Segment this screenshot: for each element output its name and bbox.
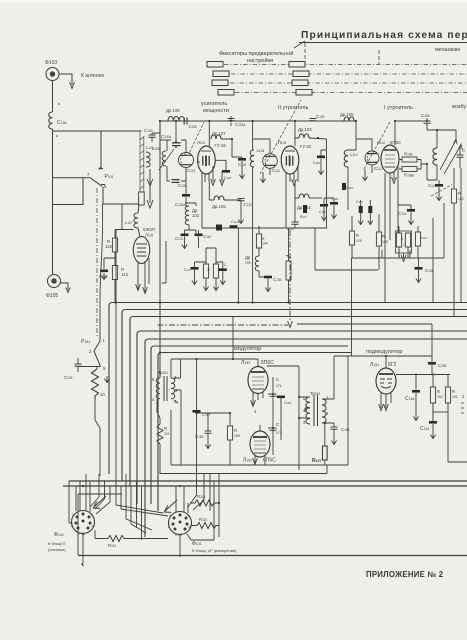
capacitor C109	[330, 202, 338, 205]
capacitor C149	[219, 268, 227, 271]
svg-text:C120a: C120a	[161, 134, 171, 139]
tube pins down + grounds	[202, 166, 222, 228]
interstage coil L109	[355, 121, 357, 150]
tube Л152 6П6С	[250, 431, 270, 457]
tube pins down + grounds	[286, 166, 298, 228]
mid vertical	[298, 366, 300, 470]
svg-text:ГУ-32: ГУ-32	[215, 143, 227, 148]
svg-text:6П6С: 6П6С	[390, 140, 401, 145]
svg-text:L107: L107	[125, 220, 133, 225]
svg-text:R108: R108	[404, 152, 413, 157]
right frame of modulator	[334, 356, 352, 465]
svg-text:C106: C106	[421, 113, 430, 118]
capacitor C134	[215, 160, 226, 170]
variable capacitor C121 (circle)	[179, 153, 194, 168]
svg-text:C119a: C119a	[235, 122, 245, 127]
svg-text:C135: C135	[273, 277, 282, 282]
svg-text:2: 2	[71, 524, 73, 528]
preset slider row3	[212, 80, 228, 86]
wire x166 hook	[162, 241, 167, 283]
svg-text:Др.103: Др.103	[298, 127, 312, 132]
svg-text:C121: C121	[428, 183, 437, 188]
antenna tank twin-line with coupling	[140, 131, 145, 192]
coil L107	[134, 205, 140, 238]
small bold caps right of Л103	[342, 183, 346, 190]
mechanism link line right	[378, 50, 380, 64]
svg-text:C131: C131	[398, 211, 407, 216]
svg-text:К блоку Б: К блоку Б	[48, 541, 66, 546]
svg-text:125: 125	[356, 239, 362, 243]
bus wire 1	[109, 303, 467, 475]
node arrow к антенне	[59, 74, 72, 85]
capacitor C no.1	[317, 156, 325, 159]
svg-text:7: 7	[91, 513, 93, 517]
svg-text:C116: C116	[346, 186, 353, 190]
bus wire 7	[158, 353, 352, 512]
resistor R117 bold	[303, 205, 307, 213]
choke Др105	[255, 256, 259, 271]
svg-text:C134: C134	[224, 176, 232, 180]
wire antenna down	[52, 81, 54, 113]
wire P101 to P151	[100, 204, 103, 336]
trimmer arrows (возбудитель)	[440, 140, 461, 174]
connector Ф103	[46, 68, 59, 81]
resistor R125	[376, 232, 381, 246]
resistor R158 zigzag	[92, 369, 99, 399]
choke Др104	[295, 182, 299, 198]
long vertical x160 down to modulator transformer	[159, 121, 161, 378]
svg-text:C117: C117	[356, 200, 363, 204]
capacitor C113a	[230, 225, 238, 228]
coil L104 variable	[162, 151, 166, 166]
svg-text:C121: C121	[187, 168, 196, 173]
resistor R113 zigzag	[95, 536, 168, 542]
svg-text:C: C	[462, 148, 465, 153]
svg-text:6Г2: 6Г2	[388, 362, 396, 368]
svg-text:C108: C108	[425, 268, 434, 273]
svg-text:7: 7	[188, 514, 190, 518]
resistor R114 zigzag	[190, 500, 219, 506]
bottom rail of PA cell	[202, 227, 327, 229]
top rail	[160, 120, 356, 122]
coil L105 (coupling, movable)	[146, 152, 150, 167]
resistor R102	[213, 264, 218, 278]
resistor R167	[323, 446, 328, 460]
bus wire 6	[151, 346, 348, 504]
svg-text:Тр151: Тр151	[158, 370, 168, 375]
capacitor C158	[331, 427, 338, 429]
svg-text:L104: L104	[146, 145, 154, 150]
resistor R119 zigzag	[157, 424, 163, 444]
wire stub x83	[53, 178, 84, 205]
svg-text:105: 105	[245, 261, 251, 265]
svg-text:(питанье): (питанье)	[48, 547, 66, 552]
svg-text:6П6С: 6П6С	[261, 360, 274, 366]
capacitor C106	[426, 118, 428, 130]
svg-text:Л104: Л104	[197, 140, 205, 145]
preset slider row1	[207, 62, 223, 68]
svg-text:C111: C111	[374, 166, 382, 171]
svg-text:102: 102	[192, 213, 200, 218]
capacitor C110	[320, 204, 328, 207]
capacitor C114	[294, 198, 296, 222]
svg-text:C130: C130	[189, 124, 198, 129]
transformer wires	[299, 356, 334, 427]
svg-text:Принципиальная схема пер: Принципиальная схема пер	[301, 30, 467, 41]
mechanism dash-dot rows with preset slider rectangles	[224, 65, 467, 93]
lower RC group of PA cathode	[185, 203, 196, 206]
coil C146 (antenna coupling)	[49, 112, 53, 129]
svg-text:R: R	[234, 428, 237, 433]
svg-text:R108a: R108a	[404, 173, 414, 178]
mechanical dash-dot link P101-P151	[96, 188, 98, 336]
svg-text:механизм: механизм	[435, 47, 460, 53]
svg-text:116: 116	[105, 244, 112, 249]
capacitor C130a	[185, 181, 187, 194]
svg-text:3: 3	[188, 525, 190, 529]
resistor R151	[445, 387, 450, 403]
svg-text:Тр152: Тр152	[310, 391, 320, 396]
svg-text:усилитель: усилитель	[201, 101, 227, 107]
wire grid tank to tube	[197, 161, 200, 163]
capacitor C159	[431, 356, 433, 362]
svg-text:151: 151	[452, 395, 458, 399]
interstage coil L106	[252, 121, 254, 150]
svg-text:C159: C159	[438, 363, 447, 368]
resistor R126 boxed pair	[396, 231, 412, 253]
svg-text:1: 1	[72, 513, 74, 517]
svg-text:C141: C141	[175, 236, 184, 241]
svg-text:L110: L110	[350, 152, 358, 157]
capacitor C118	[238, 158, 246, 161]
svg-text:C: C	[276, 422, 279, 427]
tube Л102 6П6С	[381, 145, 399, 173]
capacitor C138	[100, 270, 108, 273]
variable capacitor C111 (circle)	[365, 151, 379, 165]
capacitor C151	[429, 421, 437, 424]
svg-text:104: 104	[262, 242, 268, 246]
svg-text:Др.107: Др.107	[212, 131, 226, 136]
verticals into connector area	[90, 474, 214, 541]
svg-text:9 18: 9 18	[175, 533, 182, 537]
resistor R115 zigzag	[191, 523, 219, 529]
long rail y481	[69, 480, 467, 482]
connector Ф105	[48, 275, 61, 288]
svg-text:2: 2	[168, 525, 170, 529]
title underline	[299, 42, 467, 44]
wire x52 down	[52, 205, 54, 275]
resistor R159	[227, 426, 232, 440]
svg-text:119: 119	[164, 432, 170, 436]
svg-text:R: R	[437, 389, 440, 394]
wire y178 to switch arm	[53, 177, 91, 179]
switch Р151	[94, 336, 101, 367]
svg-text:ПРИЛОЖЕНИЕ № 2: ПРИЛОЖЕНИЕ № 2	[366, 570, 444, 579]
capacitor C131	[398, 205, 411, 209]
svg-text:Л103: Л103	[278, 140, 286, 145]
svg-text:Др.106: Др.106	[212, 204, 226, 209]
svg-text:Др.105: Др.105	[340, 112, 354, 117]
capacitor on rail	[216, 225, 222, 231]
switch Р101	[90, 131, 105, 204]
svg-text:I утроитель: I утроитель	[384, 105, 413, 111]
svg-text:Др: Др	[245, 255, 251, 260]
tube pins down	[385, 166, 398, 233]
svg-text:10: 10	[100, 392, 105, 397]
resistor R152	[430, 387, 435, 403]
bus wire 2	[122, 310, 467, 482]
capacitor C147	[191, 267, 199, 270]
resistor R122	[451, 189, 456, 203]
variable capacitor C112 (circle)	[263, 154, 278, 169]
svg-text:R114: R114	[197, 494, 205, 499]
svg-text:14: 14	[91, 524, 95, 528]
capacitor C167	[196, 359, 198, 410]
svg-text:Л102: Л102	[377, 140, 385, 145]
svg-text:C147: C147	[184, 268, 192, 272]
resistor R108	[402, 157, 417, 162]
svg-text:мощности: мощности	[203, 108, 229, 114]
svg-text:6ЖЗП: 6ЖЗП	[143, 227, 155, 232]
connector Ф101	[169, 512, 192, 535]
svg-text:настройки: настройки	[247, 57, 273, 64]
capacitor C105 on rail	[310, 119, 317, 121]
svg-text:C119: C119	[203, 234, 211, 239]
resistor R108a	[402, 167, 417, 172]
bus wire 3	[130, 317, 467, 487]
tube Л151 6Г2	[376, 368, 396, 394]
svg-text:171: 171	[276, 384, 282, 388]
anode feed x209	[208, 121, 210, 146]
bus wire 5	[145, 339, 467, 537]
svg-text:Е 13: Е 13	[78, 532, 85, 536]
choke Др105a on rail	[344, 117, 354, 121]
svg-text:Л105: Л105	[145, 233, 153, 238]
choke Др103	[299, 134, 309, 138]
svg-text:C130a: C130a	[175, 202, 185, 207]
wire rail y374.5	[396, 374, 450, 376]
wire rail to tank top	[175, 121, 177, 140]
capacitor C108	[415, 267, 423, 270]
svg-text:Ф105: Ф105	[46, 293, 58, 299]
mechanism link line	[294, 41, 305, 48]
capacitor C139	[78, 358, 101, 367]
choke Др106	[209, 182, 214, 200]
bus wire 4	[137, 331, 467, 504]
wire rail to bus	[237, 228, 239, 303]
svg-text:1: 1	[169, 514, 171, 518]
svg-text:R107: R107	[420, 236, 428, 240]
choke Др108	[168, 117, 185, 122]
capacitor C130 series in rail	[184, 118, 187, 125]
resistor in line	[139, 192, 145, 205]
svg-text:R115: R115	[199, 517, 207, 522]
grid caps C171 C172 C164	[272, 377, 274, 455]
svg-text:К блоку „И“ (измерения): К блоку „И“ (измерения)	[192, 548, 237, 553]
svg-text:модулятор: модулятор	[234, 346, 261, 352]
capacitor C119	[195, 234, 203, 237]
svg-text:C: C	[276, 377, 279, 382]
svg-text:C112: C112	[272, 168, 280, 173]
svg-text:C164: C164	[284, 401, 292, 405]
preset slider row4	[218, 90, 234, 96]
wires around resistors	[104, 252, 115, 303]
capacitor C160	[207, 413, 209, 431]
svg-text:R: R	[452, 389, 455, 394]
bottom long rail y557	[78, 555, 467, 557]
svg-text:L106: L106	[257, 148, 265, 153]
svg-text:C160: C160	[195, 434, 204, 439]
wire x122	[121, 204, 123, 230]
capacitor C140 stub	[152, 133, 160, 135]
choke Др107	[211, 135, 221, 139]
svg-text:C113a: C113a	[231, 220, 240, 224]
arrow into Ф101	[164, 500, 177, 512]
svg-text:159: 159	[234, 434, 240, 438]
svg-text:R: R	[356, 233, 359, 238]
svg-text:II утроитель: II утроитель	[278, 105, 309, 111]
connector Ф104	[72, 511, 95, 534]
svg-text:R: R	[164, 426, 167, 431]
svg-text:C105: C105	[316, 114, 325, 119]
arrow into Ф104	[93, 496, 106, 508]
svg-text:Ф103: Ф103	[45, 60, 57, 66]
svg-text:113: 113	[121, 272, 128, 277]
svg-text:152: 152	[437, 395, 443, 399]
svg-text:R117: R117	[300, 215, 307, 219]
svg-text:Фиксаторы предварительной: Фиксаторы предварительной	[219, 50, 293, 57]
choke Др102	[185, 197, 187, 206]
svg-text:C139: C139	[64, 375, 73, 380]
svg-text:C120: C120	[178, 183, 187, 188]
svg-text:К антенне: К антенне	[81, 73, 104, 79]
tube Л105 (6Ж3П)	[133, 237, 149, 294]
capacitor C121	[432, 180, 439, 356]
crossing verticals through bus	[115, 230, 117, 481]
dash-dot mechanism wire with arrow	[158, 324, 289, 326]
oscillator coil L101	[433, 148, 437, 165]
tube Л103 ГУ-32	[281, 146, 299, 174]
tube Л104 ГУ-32	[198, 146, 216, 174]
svg-text:C132: C132	[244, 202, 253, 207]
resistor R101	[203, 264, 208, 278]
capacitor C119a on top rail	[230, 116, 232, 126]
transformer wires	[157, 359, 181, 424]
wire switch-8 to grid network	[103, 203, 139, 205]
wire loop under tripler	[300, 228, 378, 270]
long rail y486	[63, 485, 467, 487]
svg-text:ГУ-32: ГУ-32	[300, 144, 312, 149]
svg-text:подмодулятор: подмодулятор	[366, 349, 402, 355]
resistor R124	[349, 231, 354, 245]
modulator cell frame	[171, 358, 233, 360]
preset slider row2	[213, 71, 229, 77]
svg-text:возбу: возбу	[452, 104, 466, 110]
resistor R116	[112, 238, 117, 252]
resistor R103 lower	[112, 266, 117, 280]
svg-text:Др.108: Др.108	[166, 108, 180, 113]
wire y473.5	[160, 473, 327, 475]
capacitor C164a	[415, 375, 417, 391]
long verticals to bus	[433, 168, 461, 303]
svg-text:R113: R113	[108, 543, 116, 548]
resistor R107	[415, 232, 420, 246]
capacitor C141	[181, 234, 189, 237]
wire down to switch	[52, 129, 54, 205]
svg-text:C115: C115	[313, 161, 320, 165]
capacitor C135	[264, 276, 272, 279]
capacitor C104 right	[457, 155, 464, 157]
wire to tank	[53, 130, 142, 132]
wire grid	[138, 204, 140, 205]
svg-text:C140: C140	[144, 128, 153, 133]
anode x295 up	[294, 121, 296, 146]
tube third cathode pin	[148, 258, 150, 284]
resistor R104	[256, 234, 261, 248]
resistor R105 tall	[286, 261, 291, 280]
capacitor C132	[238, 199, 245, 201]
tick mark	[82, 563, 83, 566]
svg-text:C110: C110	[319, 210, 326, 214]
grid tank box	[160, 140, 186, 181]
